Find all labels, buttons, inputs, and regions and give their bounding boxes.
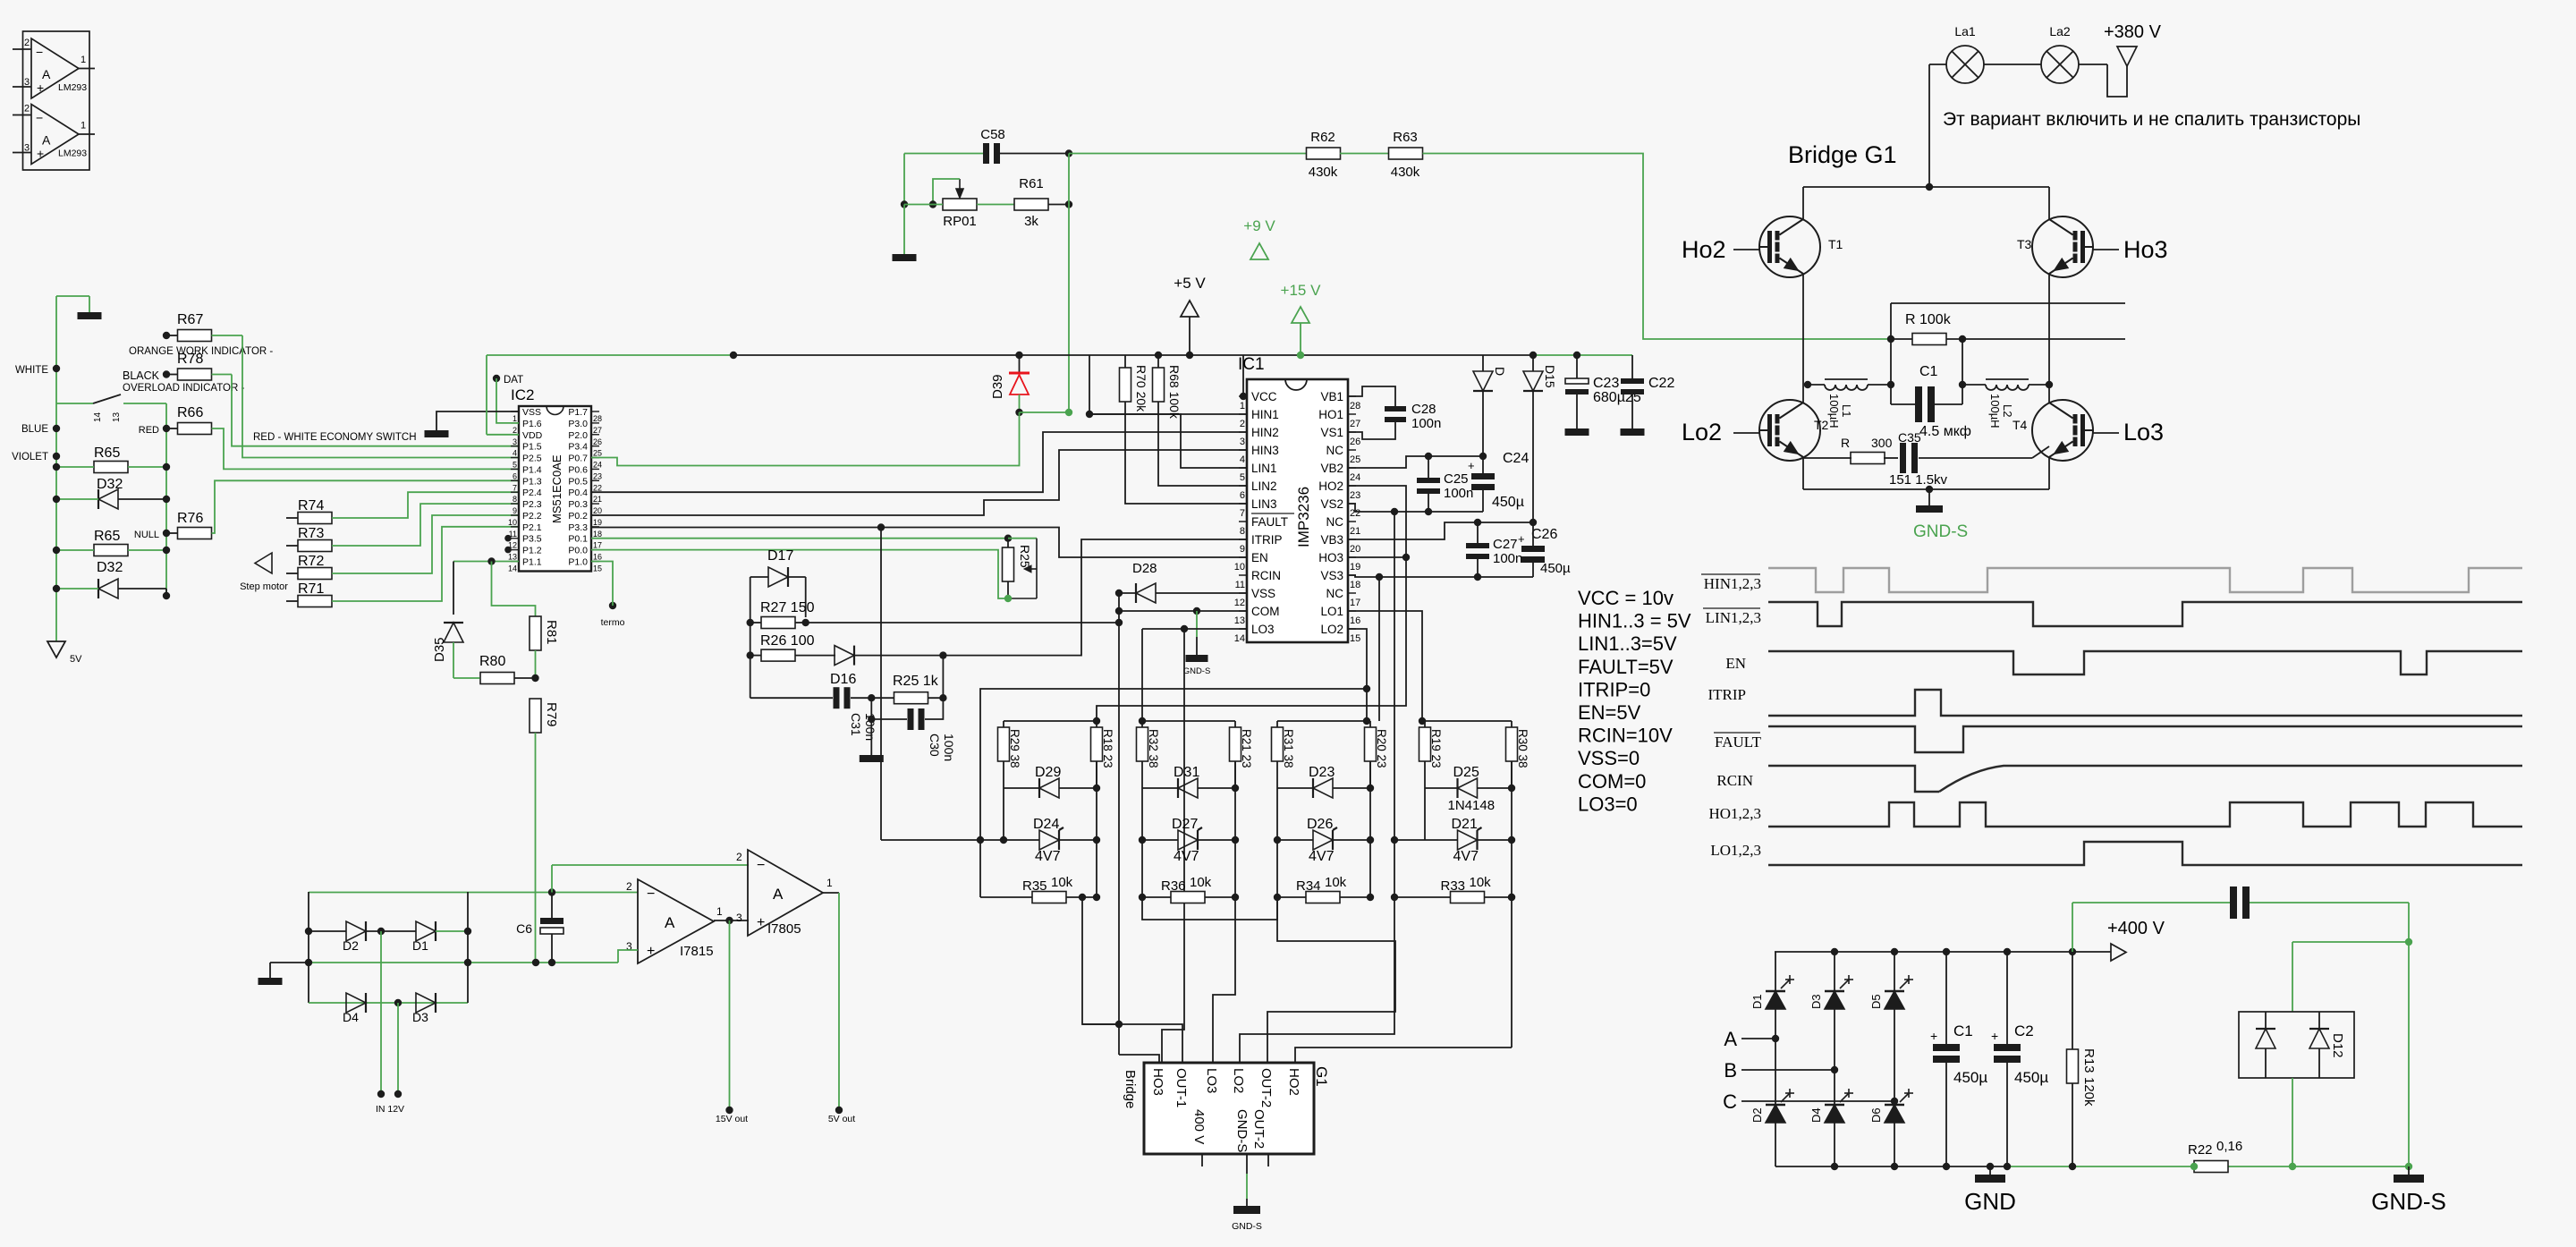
- svg-text:Lo2: Lo2: [1682, 419, 1722, 445]
- svg-text:430k: 430k: [1391, 165, 1420, 180]
- transistor T1: [1759, 216, 1820, 277]
- wire snubber top lines: [1891, 302, 2125, 304]
- svg-text:HO3: HO3: [1318, 551, 1343, 564]
- svg-text:C58: C58: [980, 127, 1005, 142]
- svg-text:D2: D2: [1750, 1107, 1764, 1123]
- svg-text:R22: R22: [2188, 1142, 2213, 1158]
- svg-text:ITRIP: ITRIP: [1251, 533, 1283, 547]
- svg-text:R80: R80: [479, 654, 505, 669]
- svg-text:G1: G1: [1313, 1066, 1330, 1087]
- thyristor D2: [1766, 1105, 1785, 1123]
- svg-text:7: 7: [1240, 508, 1245, 519]
- svg-text:D24: D24: [1033, 817, 1059, 832]
- wire D12 feed: [2292, 941, 2409, 943]
- svg-text:16: 16: [593, 553, 602, 562]
- svg-text:5V out: 5V out: [828, 1114, 855, 1124]
- svg-text:ITRIP=0: ITRIP=0: [1578, 678, 1650, 700]
- diode D35: [453, 562, 454, 615]
- svg-text:D4: D4: [1809, 1107, 1823, 1123]
- svg-text:P0.0: P0.0: [568, 546, 588, 556]
- svg-text:8: 8: [513, 495, 517, 504]
- wire bridge HO3 stub: [1119, 1055, 1159, 1063]
- node C31 right: [868, 694, 875, 701]
- svg-text:HO2: HO2: [1286, 1068, 1301, 1096]
- svg-text:P0.7: P0.7: [568, 454, 588, 464]
- svg-text:D39: D39: [990, 374, 1005, 399]
- svg-text:4.5 мкф: 4.5 мкф: [1919, 424, 1971, 439]
- svg-text:C26: C26: [1531, 527, 1557, 542]
- svg-text:P1.1: P1.1: [522, 557, 542, 568]
- svg-text:A: A: [773, 886, 784, 903]
- svg-text:VCC = 10v: VCC = 10v: [1578, 587, 1674, 609]
- wire L2 row: [1962, 384, 1986, 386]
- potentiometer R25: [1003, 547, 1014, 581]
- wire R73 to IC2: [332, 504, 519, 546]
- svg-text:RCIN=10V: RCIN=10V: [1578, 725, 1673, 747]
- svg-text:OUT-1: OUT-1: [1174, 1068, 1189, 1107]
- svg-text:R25 1k: R25 1k: [893, 674, 939, 689]
- capacitor snubber top: [2072, 902, 2231, 903]
- svg-text:LO3: LO3: [1204, 1068, 1219, 1093]
- svg-text:R19 23: R19 23: [1429, 729, 1443, 768]
- wire IN12V: [380, 931, 382, 1094]
- ground bottom left: [269, 963, 271, 978]
- svg-text:D21: D21: [1452, 817, 1478, 832]
- svg-text:2: 2: [24, 38, 30, 48]
- svg-text:13: 13: [1234, 615, 1245, 626]
- svg-text:C27: C27: [1493, 537, 1518, 552]
- svg-text:R68 100k: R68 100k: [1167, 365, 1182, 420]
- svg-text:IC1: IC1: [1238, 355, 1265, 374]
- svg-text:C22: C22: [1648, 376, 1674, 391]
- svg-text:P0.1: P0.1: [568, 534, 588, 545]
- svg-text:D32: D32: [97, 477, 123, 492]
- svg-text:R78: R78: [177, 352, 203, 367]
- diode D39: [1019, 355, 1021, 373]
- node WHITE: [53, 365, 60, 372]
- svg-text:P2.5: P2.5: [522, 454, 542, 464]
- svg-text:EN: EN: [1725, 655, 1746, 672]
- svg-text:R20 23: R20 23: [1375, 729, 1388, 768]
- svg-text:BLUE: BLUE: [21, 424, 48, 435]
- svg-text:+: +: [1930, 1029, 1937, 1043]
- svg-text:4V7: 4V7: [1309, 849, 1335, 864]
- node R80-R81-R79: [531, 674, 538, 682]
- svg-text:HO1,2,3: HO1,2,3: [1708, 805, 1761, 822]
- wire R71 to IC2: [332, 527, 519, 601]
- svg-text:400 V: 400 V: [1191, 1109, 1207, 1144]
- svg-text:A: A: [1724, 1028, 1737, 1050]
- svg-text:1N4148: 1N4148: [1448, 798, 1496, 813]
- svg-text:C24: C24: [1503, 451, 1529, 466]
- svg-text:B: B: [1724, 1059, 1737, 1082]
- svg-text:20: 20: [593, 506, 602, 515]
- wire P0.1 to R25 pot: [591, 538, 1008, 539]
- wire EN net from P3.3: [591, 528, 1247, 558]
- wire R27 to COM net: [806, 622, 1119, 623]
- svg-text:VSS: VSS: [522, 407, 541, 418]
- svg-text:R31 38: R31 38: [1282, 729, 1295, 768]
- node termo: [591, 562, 613, 598]
- svg-text:IC2: IC2: [511, 386, 534, 403]
- svg-text:D15: D15: [1543, 365, 1557, 388]
- diode D: [1482, 355, 1484, 371]
- wire VCC into IC1: [1243, 355, 1247, 396]
- svg-text:100n: 100n: [1444, 486, 1473, 501]
- svg-text:OVERLOAD INDICATOR -: OVERLOAD INDICATOR -: [123, 383, 244, 394]
- svg-text:termo: termo: [601, 617, 625, 628]
- svg-text:10: 10: [1234, 562, 1245, 573]
- capacitor C27: [1477, 522, 1479, 543]
- wire snubber verticals: [1890, 339, 1892, 404]
- wire cell3 right rail down: [1369, 761, 1371, 897]
- svg-text:FAULT=5V: FAULT=5V: [1578, 656, 1674, 678]
- svg-text:R21 23: R21 23: [1240, 729, 1253, 768]
- svg-text:T3: T3: [2017, 237, 2032, 251]
- svg-text:6: 6: [513, 471, 517, 480]
- resistor R21: [1230, 727, 1241, 761]
- svg-text:1: 1: [80, 55, 86, 65]
- lamp La2: [2041, 46, 2079, 83]
- wire LO3 to cell2 top: [1141, 629, 1143, 721]
- svg-text:21: 21: [593, 495, 602, 504]
- svg-text:GND-S: GND-S: [1183, 666, 1211, 676]
- svg-text:15: 15: [1350, 633, 1360, 644]
- svg-text:IMP3236: IMP3236: [1295, 487, 1312, 547]
- svg-text:HIN1: HIN1: [1251, 408, 1279, 421]
- svg-text:C35: C35: [1898, 430, 1921, 445]
- svg-text:−: −: [36, 111, 43, 125]
- node BLUE: [53, 425, 60, 432]
- wire rect loop: [309, 892, 638, 894]
- svg-text:5: 5: [513, 461, 517, 470]
- wire R79 down: [535, 733, 537, 963]
- svg-text:IN 12V: IN 12V: [376, 1104, 404, 1115]
- svg-text:P0.3: P0.3: [568, 499, 588, 510]
- svg-text:15V out: 15V out: [716, 1114, 748, 1124]
- svg-text:Ho2: Ho2: [1682, 236, 1726, 263]
- connector Bridge G1: [1123, 1063, 1330, 1154]
- svg-text:11: 11: [1235, 580, 1245, 590]
- svg-text:10: 10: [508, 518, 517, 527]
- wire D16 to ITRIP: [943, 539, 1247, 656]
- svg-text:1: 1: [826, 877, 833, 889]
- svg-text:23: 23: [1350, 490, 1360, 501]
- svg-text:−: −: [647, 886, 655, 902]
- node R27 right: [802, 619, 809, 626]
- resistor R79: [530, 699, 541, 733]
- svg-text:R30 38: R30 38: [1516, 729, 1529, 768]
- svg-text:+15 V: +15 V: [1281, 282, 1322, 299]
- wire 400V stub: [1201, 1154, 1203, 1166]
- wire cell2-cell3 bracket: [1142, 897, 1277, 920]
- wire I7815 out: [714, 920, 749, 921]
- wire R68 to LIN2: [1158, 402, 1247, 486]
- wire I7815 plus: [618, 950, 638, 963]
- node D16 right: [939, 651, 946, 658]
- svg-text:La1: La1: [1954, 24, 1976, 38]
- wire OUT-2 to cell3 bracket: [1267, 897, 1395, 1063]
- svg-text:D6: D6: [1869, 1107, 1883, 1123]
- svg-text:ITRIP: ITRIP: [1708, 686, 1747, 703]
- svg-text:14: 14: [93, 411, 103, 422]
- svg-text:LO2: LO2: [1320, 623, 1343, 636]
- wire +400V bus: [1775, 951, 2111, 953]
- svg-text:R 100k: R 100k: [1905, 312, 1952, 327]
- svg-text:NC: NC: [1326, 587, 1344, 600]
- wire WHITE net vertical: [55, 296, 57, 641]
- svg-text:+9 V: +9 V: [1243, 217, 1275, 234]
- svg-text:26: 26: [593, 437, 602, 446]
- wire minus inputs: [551, 865, 553, 893]
- wire cell2 top rail: [1142, 720, 1235, 722]
- svg-text:P2.3: P2.3: [522, 499, 542, 510]
- wire P0.7 to D39 net: [591, 412, 1020, 466]
- resistor R20: [1365, 727, 1377, 761]
- svg-text:R32 38: R32 38: [1147, 729, 1160, 768]
- svg-text:+400 V: +400 V: [2107, 919, 2165, 938]
- svg-text:LO3: LO3: [1251, 623, 1275, 636]
- svg-text:5V: 5V: [70, 654, 82, 665]
- svg-text:LM293: LM293: [58, 82, 87, 93]
- wire VDD riser: [487, 434, 519, 436]
- svg-text:D17: D17: [767, 548, 793, 564]
- svg-text:2: 2: [1240, 419, 1245, 429]
- wire green 1076: [270, 962, 309, 963]
- svg-text:P1.6: P1.6: [522, 419, 542, 429]
- IC U2 MS51EC0AE IC2: [508, 386, 602, 573]
- svg-text:24: 24: [1350, 472, 1360, 483]
- svg-text:100µH: 100µH: [1827, 394, 1841, 428]
- symbol Step motor: [255, 553, 272, 573]
- svg-text:24: 24: [593, 461, 602, 470]
- svg-text:450µ: 450µ: [1953, 1069, 1987, 1086]
- diode block D12: [2239, 1012, 2354, 1078]
- svg-text:P3.3: P3.3: [568, 522, 588, 533]
- svg-text:LIN1: LIN1: [1251, 462, 1277, 475]
- svg-text:HIN3: HIN3: [1251, 444, 1279, 457]
- svg-text:450µ: 450µ: [2014, 1069, 2048, 1086]
- svg-text:VB2: VB2: [1320, 462, 1343, 475]
- svg-text:1: 1: [80, 121, 86, 131]
- svg-text:LIN3: LIN3: [1251, 497, 1277, 511]
- resistor R32: [1137, 727, 1148, 761]
- transistor T4: [2032, 400, 2093, 461]
- svg-text:VSS=0: VSS=0: [1578, 747, 1640, 769]
- wire P1.6 to DAT: [496, 378, 519, 423]
- svg-text:LM293: LM293: [58, 148, 87, 159]
- svg-text:NULL: NULL: [134, 530, 159, 540]
- svg-text:430k: 430k: [1309, 165, 1338, 180]
- svg-text:D12: D12: [2330, 1033, 2345, 1058]
- lamp La1: [1946, 46, 1984, 83]
- svg-text:3k: 3k: [1024, 214, 1038, 229]
- node D39 anode: [1015, 409, 1022, 416]
- svg-text:100n: 100n: [1493, 551, 1522, 566]
- wire HIN1 bracket: [1089, 355, 1090, 414]
- wire cell1 right rail down: [1096, 761, 1097, 897]
- wire COM line: [1119, 610, 1247, 612]
- wire VS2b to cell3: [1378, 577, 1380, 721]
- svg-text:P1.3: P1.3: [522, 476, 542, 487]
- wire 15V out: [729, 920, 731, 1110]
- svg-text:+: +: [37, 81, 44, 95]
- svg-text:R76: R76: [177, 511, 203, 526]
- svg-text:9: 9: [513, 506, 517, 515]
- svg-text:3: 3: [1240, 437, 1245, 447]
- svg-text:4: 4: [1240, 454, 1245, 465]
- svg-text:C28: C28: [1411, 402, 1436, 417]
- svg-text:−: −: [36, 45, 43, 59]
- svg-text:HIN1,2,3: HIN1,2,3: [1704, 575, 1761, 592]
- svg-text:RP01: RP01: [943, 214, 977, 229]
- resistor R31: [1272, 727, 1284, 761]
- svg-text:R26 100: R26 100: [760, 633, 815, 649]
- svg-text:19: 19: [593, 518, 602, 527]
- svg-text:A: A: [42, 133, 51, 148]
- svg-text:12: 12: [1234, 598, 1245, 608]
- resistor R81: [530, 616, 541, 650]
- svg-text:GND-S: GND-S: [1232, 1221, 1262, 1232]
- svg-text:VB3: VB3: [1320, 533, 1343, 547]
- svg-text:6: 6: [1240, 490, 1245, 501]
- svg-text:RCIN: RCIN: [1251, 569, 1281, 582]
- svg-text:100n: 100n: [942, 734, 956, 761]
- wire cell4 top rail: [1425, 720, 1512, 722]
- svg-text:Step motor: Step motor: [240, 581, 288, 592]
- svg-text:−: −: [757, 858, 765, 873]
- svg-text:D31: D31: [1174, 765, 1199, 780]
- wire VB3 net: [1348, 522, 1533, 539]
- thyristor D6: [1885, 1105, 1904, 1123]
- potentiometer RP01: [943, 199, 977, 210]
- svg-text:C: C: [1723, 1090, 1737, 1113]
- svg-text:EN=5V: EN=5V: [1578, 701, 1641, 724]
- resistor R18: [1091, 727, 1103, 761]
- wire R74 to IC2: [332, 492, 519, 518]
- op-amp LM293 A: [31, 38, 79, 98]
- wire cell2 right rail down: [1234, 761, 1236, 897]
- wire C58 to R62: [1069, 153, 1307, 155]
- svg-text:+380 V: +380 V: [2104, 22, 2162, 42]
- wire I7805 out 5V: [823, 892, 839, 894]
- wire GND-S stub: [1246, 1154, 1248, 1174]
- wire R76 to P1.3: [212, 480, 520, 533]
- svg-text:16: 16: [1350, 615, 1360, 626]
- svg-text:RCIN: RCIN: [1716, 772, 1753, 789]
- svg-text:22: 22: [593, 483, 602, 492]
- svg-text:D32: D32: [97, 560, 123, 575]
- svg-text:RED - WHITE ECONOMY SWITCH: RED - WHITE ECONOMY SWITCH: [253, 432, 417, 443]
- svg-text:D16: D16: [830, 672, 856, 687]
- svg-text:Ho3: Ho3: [2123, 236, 2168, 263]
- capacitor C25: [1428, 456, 1429, 478]
- svg-text:27: 27: [1350, 419, 1360, 429]
- ground IC2 VSS: [436, 411, 519, 430]
- svg-text:18: 18: [1350, 580, 1360, 590]
- svg-text:9: 9: [1240, 544, 1245, 555]
- svg-text:VS3: VS3: [1320, 569, 1343, 582]
- wire VB2 net: [1348, 456, 1483, 468]
- svg-text:D5: D5: [1869, 994, 1883, 1009]
- svg-text:LIN1,2,3: LIN1,2,3: [1706, 609, 1761, 626]
- svg-text:P0.5: P0.5: [568, 476, 588, 487]
- wire cell1 zener feed: [881, 839, 980, 841]
- svg-text:A: A: [42, 67, 51, 81]
- svg-text:+5 V: +5 V: [1174, 275, 1206, 292]
- svg-text:28: 28: [1350, 401, 1360, 411]
- wire snubber green right: [2408, 903, 2410, 1166]
- svg-text:R70 20k: R70 20k: [1134, 365, 1148, 412]
- wire VSS-COM vertical to bridge HO3: [1118, 593, 1120, 1055]
- wire R63 to bridge: [1423, 154, 1892, 340]
- svg-text:+: +: [1468, 459, 1475, 472]
- svg-text:100µH: 100µH: [1988, 394, 2002, 428]
- wire green vertical C58 junction down: [1068, 154, 1070, 205]
- svg-text:T1: T1: [1828, 237, 1843, 251]
- wire VS2 to cell4: [1394, 512, 1395, 897]
- svg-text:C1: C1: [1919, 364, 1938, 379]
- svg-text:D1: D1: [1750, 994, 1764, 1009]
- wire LO2 net to cell3 top: [1348, 629, 1367, 721]
- svg-text:COM=0: COM=0: [1578, 770, 1646, 793]
- svg-text:R: R: [1841, 436, 1850, 450]
- wire green to R13 top: [2072, 903, 2073, 952]
- svg-text:Lo3: Lo3: [2123, 419, 2164, 445]
- svg-text:1: 1: [1240, 401, 1245, 411]
- node NULL: [163, 530, 170, 537]
- wire R72 to IC2: [332, 515, 519, 573]
- svg-text:17: 17: [1350, 598, 1360, 608]
- wire P1.1 net: [453, 561, 519, 563]
- svg-text:T4: T4: [2012, 418, 2028, 432]
- svg-text:2: 2: [626, 880, 632, 893]
- svg-text:HIN2: HIN2: [1251, 426, 1279, 439]
- wire P0.2 to HIN3: [591, 450, 1247, 515]
- resistor R13: [2072, 952, 2073, 1049]
- svg-text:RED: RED: [139, 425, 159, 436]
- svg-text:25: 25: [1350, 454, 1360, 465]
- svg-text:WHITE: WHITE: [15, 365, 48, 376]
- svg-text:1: 1: [716, 905, 723, 918]
- svg-text:D4: D4: [343, 1010, 359, 1024]
- wire R70 to LIN3: [1125, 402, 1247, 504]
- op-amp block U-LM293 outline: [23, 31, 90, 170]
- transistor T3: [2032, 216, 2093, 277]
- svg-text:R65: R65: [94, 529, 120, 544]
- svg-text:NC: NC: [1326, 515, 1344, 529]
- wire P0.0 to R25 pot bottom: [591, 550, 1008, 598]
- svg-text:151 1.5kv: 151 1.5kv: [1889, 472, 1948, 488]
- ground GND: [1989, 1166, 1991, 1175]
- node C58 right: [1065, 149, 1072, 157]
- svg-text:VSS: VSS: [1251, 587, 1275, 600]
- svg-text:L1: L1: [1840, 404, 1853, 417]
- resistor R29: [998, 727, 1010, 761]
- svg-text:14: 14: [508, 564, 517, 573]
- svg-text:R81: R81: [544, 620, 559, 645]
- svg-text:L2: L2: [2001, 404, 2014, 417]
- wire HO3 net: [1348, 556, 1406, 558]
- svg-text:Bridge: Bridge: [1123, 1070, 1138, 1108]
- svg-text:VS2: VS2: [1320, 497, 1343, 511]
- wire HO2-HO3 net to cell1: [1097, 486, 1406, 721]
- svg-text:P2.1: P2.1: [522, 522, 542, 533]
- svg-text:+: +: [647, 944, 655, 959]
- svg-text:10k: 10k: [1325, 875, 1347, 890]
- svg-text:21: 21: [1350, 526, 1360, 537]
- resistor R70: [1120, 368, 1131, 402]
